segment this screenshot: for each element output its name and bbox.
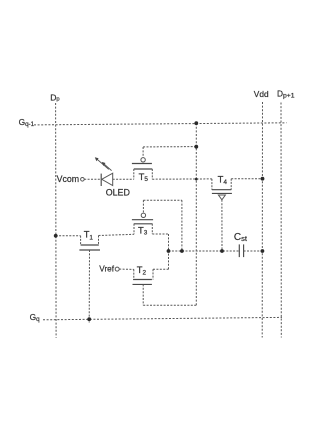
wire Vref to T2 [119, 268, 134, 270]
transistor T1 channel bar [81, 244, 99, 246]
wire Vdd supply line vertical [261, 102, 263, 338]
transistor T3 left leg [133, 224, 135, 235]
junction dot Cst to Vdd [261, 249, 265, 253]
transistor T1 gate bar [79, 249, 100, 251]
transistor T4 left leg [211, 179, 213, 190]
wire Cst to Vdd [244, 250, 263, 252]
junction dot T3 gate on node line [180, 249, 184, 253]
svg-text:Vdd: Vdd [254, 89, 269, 99]
terminal Vcom circle [81, 178, 85, 182]
junction dot T1 gate on Gq [87, 317, 91, 321]
wire OLED anode to T5 [113, 178, 134, 180]
transistor T5 [132, 147, 152, 183]
wire Dp+1 data line vertical [280, 103, 282, 338]
transistor T5 gate bubble [141, 158, 145, 162]
wire Dp data line vertical [55, 103, 58, 338]
wire T4 right to Vdd [231, 178, 262, 180]
transistor T4 gate triangle bubble [218, 195, 225, 200]
transistor T1 [56, 229, 100, 250]
transistor T3 channel bar [134, 223, 153, 225]
junction dot T4 gate on node line [220, 249, 224, 253]
svg-text:Cst: Cst [234, 232, 248, 243]
transistor T4 right leg [230, 179, 232, 190]
diode OLED light arrow 1 [97, 159, 109, 169]
wire T2 right leg over and up to node A [153, 268, 169, 270]
wire Vcom to OLED cathode [84, 178, 101, 180]
transistor T2 gate bar [133, 283, 152, 285]
transistor T4 [212, 174, 232, 200]
transistor T1 left leg [80, 236, 82, 245]
junction dot T4 to Vdd [261, 177, 265, 181]
wire storage node horizontal (node A to Cst) [169, 250, 240, 252]
transistor T4 gate bar [212, 192, 232, 194]
svg-text:Dp: Dp [50, 92, 59, 102]
transistor T5 channel bar [134, 168, 153, 170]
wire T2 gate down [142, 284, 144, 305]
wire T4 gate down to storage node [221, 200, 223, 251]
junction dot T5 gate wire [194, 145, 198, 149]
wire Gq scan line horizontal [43, 317, 282, 319]
junction dot Dp / T1 [54, 234, 58, 238]
wire Gq-1 scan line horizontal [34, 123, 287, 125]
wire T5 gate stub [142, 147, 144, 158]
wire T5 gate to Gq-1 junction horizontal [143, 146, 196, 148]
terminal Vref circle [115, 267, 119, 271]
capacitor Cst left plate [238, 244, 240, 257]
transistor T2 right leg [152, 269, 154, 279]
capacitor Cst right plate [243, 244, 245, 257]
junction dot node A left [167, 249, 171, 253]
wire node B vertical (Gq-1 down to T2 gate wire) [195, 123, 197, 305]
transistor T3 gate bubble [141, 213, 145, 217]
wire T1 right to T3 left [99, 234, 135, 235]
transistor T2 channel bar [133, 279, 152, 281]
wire T2 gate bottom horizontal [143, 304, 196, 306]
transistor T3 gate bar [132, 219, 153, 221]
svg-text:T3: T3 [138, 224, 148, 236]
diode OLED triangle [102, 173, 113, 185]
svg-text:Gq-1: Gq-1 [19, 117, 35, 128]
transistor T2 [133, 264, 154, 285]
wire T5 to T4 horizontal [152, 178, 212, 180]
transistor T5 gate bar [132, 163, 152, 165]
junction dot T5/T4 wire crossing [195, 178, 198, 181]
transistor T1 right leg [98, 236, 100, 246]
svg-text:T1: T1 [84, 229, 94, 242]
svg-text:Vref: Vref [99, 264, 114, 273]
wire T1 gate down to Gq [88, 250, 90, 323]
transistor T2 left leg [133, 269, 135, 279]
svg-text:T2: T2 [137, 264, 147, 277]
junction dot Gq-1 / node B [194, 121, 198, 125]
transistor T5 right leg [151, 169, 153, 179]
diode OLED light arrow 2 [104, 164, 112, 171]
transistor T5 left leg [133, 169, 135, 179]
svg-text:Gq: Gq [30, 312, 41, 323]
wire T3 gate stub up [142, 200, 144, 213]
wire T3 gate up and over to storage node [143, 199, 182, 201]
diode OLED cathode bar [100, 174, 102, 186]
transistor T3 [132, 200, 153, 237]
transistor T3 right leg [151, 224, 153, 234]
wire Dp to T1 left [56, 235, 81, 237]
svg-text:T5: T5 [139, 171, 149, 183]
wire T3 right leg over and down to node A [152, 233, 168, 235]
svg-text:Dp+1: Dp+1 [277, 89, 295, 100]
transistor T4 channel bar [212, 189, 231, 191]
svg-text:T4: T4 [218, 174, 228, 186]
svg-text:Vcom: Vcom [57, 174, 80, 184]
svg-text:OLED: OLED [106, 188, 130, 198]
